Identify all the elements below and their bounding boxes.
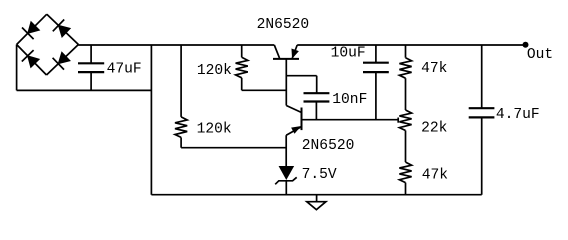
wire: 120k upper bottom to Q1 base [242, 89, 287, 91]
capacitor 10uF [363, 45, 389, 120]
svg-text:120k: 120k [197, 122, 232, 138]
svg-text:2N6520: 2N6520 [257, 17, 310, 33]
wire: bridge bottom horizontal [17, 89, 152, 91]
svg-text:10nF: 10nF [332, 92, 367, 108]
diode D2 (bridge top-right side) [47, 14, 79, 44]
capacitor 47uF [78, 45, 104, 90]
wire: bridge left corner down [16, 45, 18, 91]
wire: bottom rail [151, 194, 481, 196]
wire: 120k lower bottom to emitter line [181, 147, 286, 149]
svg-text:47k: 47k [422, 168, 449, 184]
wire: top rail left section [78, 44, 274, 46]
svg-text:4.7uF: 4.7uF [496, 107, 540, 123]
diode D1 (bridge top-left side) [17, 14, 47, 44]
wire: Q2 base line [302, 119, 399, 121]
capacitor 10nF [304, 93, 330, 120]
svg-text:2N6520: 2N6520 [302, 138, 355, 154]
svg-text:7.5V: 7.5V [302, 167, 337, 183]
resistor 22k [399, 110, 411, 162]
wire: 10nF top lead [316, 76, 318, 94]
wire: top rail right section [297, 44, 525, 46]
transistor Q1 2N6520 (PNP pass transistor) [273, 45, 299, 106]
resistor 47k (bottom) [399, 162, 411, 195]
wiper tick at 22k [397, 118, 399, 123]
svg-text:Out: Out [527, 47, 553, 63]
svg-text:22k: 22k [421, 121, 448, 137]
resistor 120k (lower) [175, 45, 187, 148]
wire: Q1 base branch to 10nF [286, 75, 316, 77]
capacitor 4.7uF [469, 45, 495, 195]
ground [307, 195, 326, 210]
transistor Q2 2N6520 [286, 106, 301, 167]
zener diode 7.5V [275, 167, 297, 195]
diode D3 (bridge bottom-left side) [17, 45, 47, 76]
svg-text:47uF: 47uF [107, 62, 142, 78]
svg-text:47k: 47k [421, 61, 448, 77]
diode D4 (bridge bottom-right side) [47, 45, 79, 76]
wire: left vertical (bridge to bottom rail) [150, 45, 152, 195]
resistor 47k (top) [399, 45, 411, 110]
svg-text:120k: 120k [197, 63, 232, 79]
svg-text:10uF: 10uF [331, 46, 366, 62]
node Out (terminal dot) [523, 42, 529, 48]
resistor 120k (upper) [236, 45, 248, 90]
